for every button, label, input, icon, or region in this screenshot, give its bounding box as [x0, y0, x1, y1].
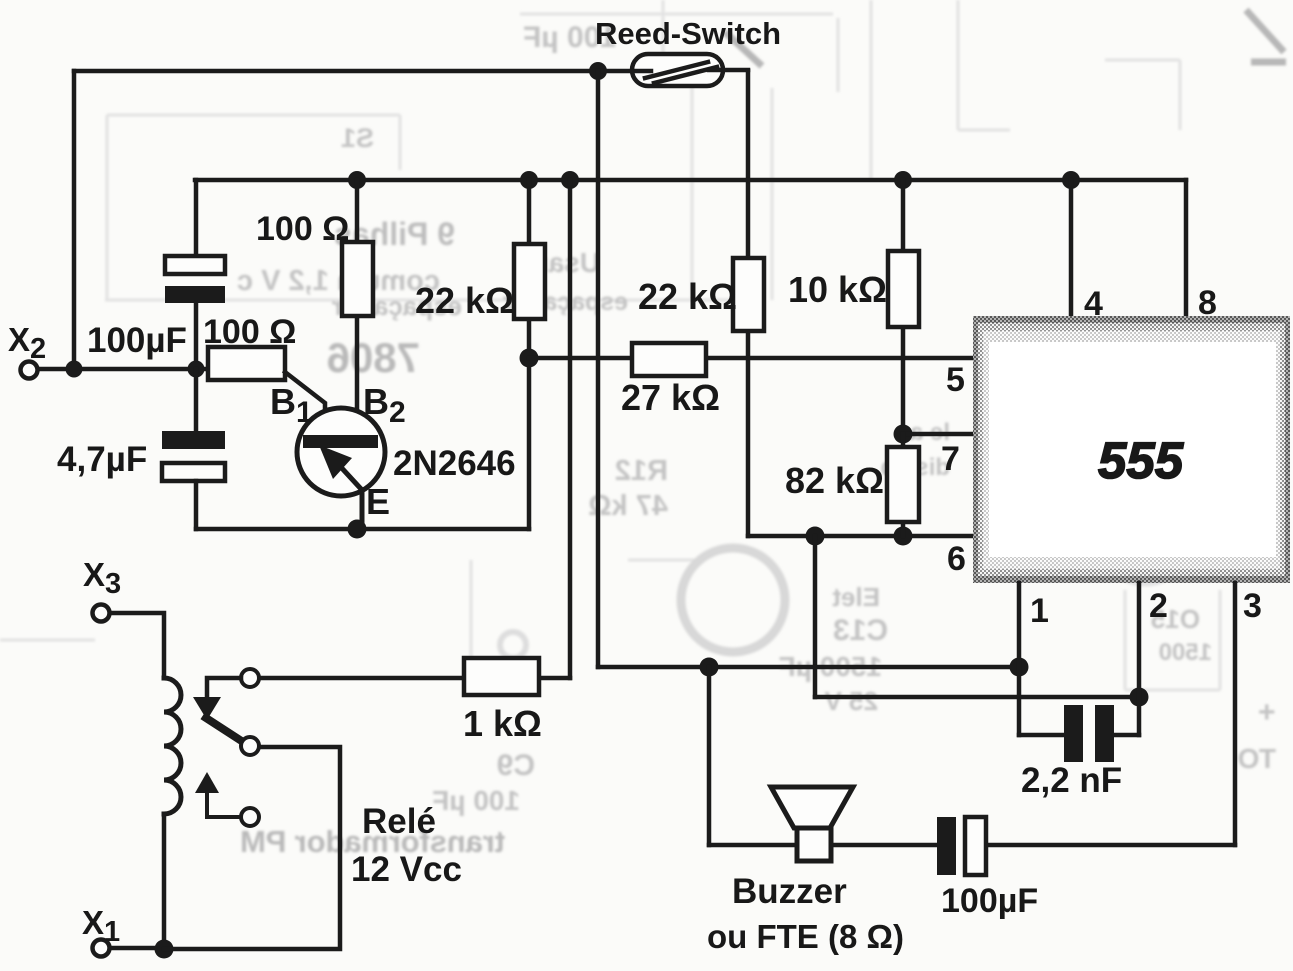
terminal X1 [93, 940, 110, 957]
wire buzzer drop x=709 [707, 667, 712, 845]
wire x815 drop to pin2 row [813, 536, 818, 697]
wire reed left lead [598, 69, 651, 74]
svg-text:100 Ω: 100 Ω [256, 210, 349, 248]
node bus-pin4 [1062, 171, 1080, 189]
wire X3 lead [110, 613, 164, 678]
svg-text:25 V: 25 V [824, 686, 878, 716]
wire C2 down to bottom loop [194, 481, 199, 529]
buzzer BZ1 body square [797, 828, 831, 861]
reed switch contacts [645, 62, 717, 83]
svg-text:10 kΩ: 10 kΩ [788, 269, 887, 310]
svg-text:100µF: 100µF [941, 882, 1038, 920]
transistor Q1 base bar [303, 435, 378, 448]
node reed left junction [589, 62, 607, 80]
svg-text:Buzzer: Buzzer [732, 872, 847, 911]
node bus-10k [894, 171, 912, 189]
svg-text:2N2646: 2N2646 [393, 444, 516, 483]
svg-text:3: 3 [1243, 587, 1262, 625]
wire UJT bottom loop [196, 527, 529, 532]
svg-text:1500: 1500 [1159, 639, 1212, 666]
wire reed right lead [709, 68, 748, 73]
capacitor C1 100uF top plate [165, 256, 225, 274]
wire 22k right leg x=529 [527, 180, 532, 529]
relay armature lever [206, 718, 240, 740]
svg-text:22 kΩ: 22 kΩ [415, 280, 514, 321]
wire pin4 lead [1069, 180, 1074, 316]
node pin2 junction [1130, 688, 1149, 707]
transistor Q1 emitter lead [338, 464, 362, 529]
wire 10k leg x=903 [901, 180, 906, 434]
wire X2 node down to C2 [194, 369, 199, 431]
reed switch S1 capsule [632, 54, 723, 86]
relay contact NO [241, 808, 259, 826]
svg-text:7806: 7806 [327, 334, 420, 381]
wire B1 lead diagonal [285, 372, 325, 435]
wire left vertical from top rail to X2 [72, 71, 77, 369]
wire 1k row y=678 [259, 676, 570, 681]
svg-text:6: 6 [947, 540, 966, 578]
wire X1 lead [110, 946, 164, 951]
svg-text:5: 5 [946, 361, 965, 399]
capacitor C1 100uF bottom plate [165, 286, 225, 303]
resistor R2 100R horizontal [208, 347, 285, 380]
resistor R6 10k [888, 251, 919, 327]
node pin1 junction [1010, 658, 1029, 677]
wire C1 to X2 node [194, 303, 199, 369]
terminal X3 [93, 605, 110, 622]
capacitor C2 4.7uF bottom plate [162, 463, 225, 481]
wire coil to X1 [162, 814, 167, 949]
IC U1 555 body [973, 316, 1290, 583]
resistor R4 27k [632, 343, 706, 376]
node pin6-x815 [806, 527, 825, 546]
svg-text:12 Vcc: 12 Vcc [351, 850, 462, 889]
svg-text:1: 1 [1030, 592, 1049, 630]
node pin7 junction [894, 425, 913, 444]
capacitor C4 100uF plus plate [965, 817, 986, 875]
relay K1 coil [164, 678, 181, 814]
node bus-1k line [561, 171, 579, 189]
svg-text:Relé: Relé [362, 802, 436, 841]
svg-text:100 µF: 100 µF [432, 785, 520, 816]
svg-text:2,2 nF: 2,2 nF [1021, 761, 1122, 800]
resistor R8 1k [464, 658, 539, 695]
svg-text:8: 8 [1198, 284, 1217, 322]
node pin6-82k [894, 527, 913, 546]
node X1 junction [155, 940, 174, 959]
wire bus left corner down to C1 [194, 180, 199, 256]
svg-text:R12: R12 [615, 455, 668, 487]
wire top rail [74, 69, 598, 74]
wire output bottom row y=845 [709, 843, 1235, 848]
buzzer BZ1 horn [771, 787, 853, 828]
svg-text:ou FTE (8 Ω): ou FTE (8 Ω) [707, 918, 904, 955]
wire pin7 row y=434 [903, 432, 975, 437]
svg-text:E: E [366, 481, 390, 522]
node X2-cap branch [188, 361, 205, 378]
node bus-22k [520, 171, 538, 189]
wire reed-left drop x=598 down to bottom row [596, 71, 601, 667]
svg-text:S1: S1 [341, 123, 374, 153]
svg-text:X2: X2 [8, 321, 46, 365]
capacitor C2 4.7uF top plate [162, 431, 225, 449]
svg-text:7: 7 [941, 440, 960, 478]
node X2-left vertical [66, 361, 83, 378]
wire pin1 row y=667 [598, 665, 1019, 670]
wire reed drop x=748 down to pin6 corner [746, 71, 751, 536]
svg-text:Reed-Switch: Reed-Switch [595, 16, 781, 51]
svg-text:22 kΩ: 22 kΩ [638, 276, 737, 317]
wire NO stub [207, 791, 241, 817]
capacitor C3 2.2nF plates [1064, 705, 1083, 762]
resistor R7 82k [901, 434, 906, 536]
svg-text:82 kΩ: 82 kΩ [785, 460, 884, 501]
relay armature arrow down [193, 697, 221, 720]
svg-text:4: 4 [1084, 285, 1103, 323]
svg-text:2: 2 [1149, 587, 1168, 625]
svg-text:B2: B2 [363, 381, 406, 429]
resistor R1 100R vertical [342, 242, 373, 316]
wire armature pivot [207, 678, 241, 698]
wire X2 row [38, 367, 208, 372]
svg-text:Elet: Elet [832, 582, 880, 612]
svg-text:4,7µF: 4,7µF [57, 440, 147, 479]
svg-text:X3: X3 [83, 556, 121, 600]
wire pin1 lead [1017, 583, 1022, 735]
transistor Q1 emitter arrow [319, 445, 352, 479]
svg-text:100µF: 100µF [87, 321, 187, 360]
wire pin6 row y=536 [748, 534, 975, 539]
wire pin8 lead [1184, 180, 1189, 316]
capacitor C3 2.2nF left lead [1019, 733, 1064, 738]
wire Vcc bus y=180 [195, 178, 1186, 183]
wire pin3 lead [1233, 583, 1238, 845]
svg-text:1 kΩ: 1 kΩ [463, 703, 542, 744]
wire pin2 row y=697 [815, 695, 1139, 700]
svg-text:+: + [1258, 696, 1276, 729]
wire pin5 row y=358 [529, 356, 975, 361]
terminal X2 [21, 362, 38, 379]
capacitor C4 100uF minus plate [937, 817, 956, 875]
node emitter junction [348, 520, 367, 539]
svg-text:47 kΩ: 47 kΩ [588, 490, 668, 522]
wire relay NC return [164, 747, 340, 949]
svg-text:27 kΩ: 27 kΩ [621, 377, 720, 418]
relay contact NC [241, 737, 259, 755]
resistor R3 22k (left) [514, 244, 545, 319]
resistor R5 22k (right) [733, 258, 764, 331]
node buzzer branch [700, 658, 719, 677]
capacitor C3 2.2nF right lead [1114, 733, 1139, 738]
wire 1k line x=570 [568, 180, 573, 678]
svg-text:555: 555 [1098, 432, 1184, 489]
transistor Q1 2N2646 body [297, 408, 385, 496]
svg-text:C13: C13 [833, 614, 888, 647]
svg-text:C9: C9 [497, 749, 535, 782]
wire pin2 lead [1137, 583, 1142, 735]
relay NO arrow up [195, 772, 219, 793]
node pin5 tap [520, 349, 539, 368]
svg-text:TO: TO [1238, 743, 1276, 774]
relay contact common [241, 669, 259, 687]
svg-text:100 Ω: 100 Ω [203, 313, 296, 351]
wire B2 vertical with R1 [355, 180, 360, 436]
node bus-B2 [348, 171, 366, 189]
